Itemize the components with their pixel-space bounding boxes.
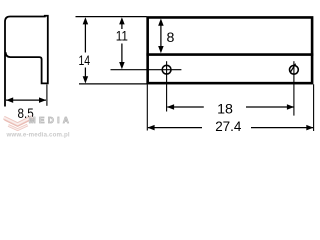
arrow left 8.5 <box>6 97 13 103</box>
svg-text:www.e-media.com.pl: www.e-media.com.pl <box>6 131 70 138</box>
svg-text:8: 8 <box>166 30 174 46</box>
right hole vertical line <box>293 61 295 115</box>
front view divider line <box>146 53 313 56</box>
left hole centerline horizontal <box>111 69 182 71</box>
arrow right 27.4 <box>306 125 313 131</box>
arrow down 11 <box>119 62 125 69</box>
top extension line <box>76 16 147 18</box>
extension line right 27.4 <box>313 84 315 131</box>
extension line left 27.4 <box>146 84 148 130</box>
arrow down 14 <box>83 76 89 83</box>
arrow up 8 <box>158 19 164 26</box>
watermark chevron upper band <box>4 117 32 124</box>
arrow left 18 <box>167 104 174 110</box>
front view rectangle <box>148 17 312 83</box>
side view outline (left profile with hook) <box>5 16 48 107</box>
watermark chevron lower band <box>8 125 27 130</box>
extension line right of 8.5 <box>46 84 48 105</box>
watermark chevron upper edge shadow <box>4 120 31 127</box>
dimension 11 line <box>121 24 123 63</box>
dimension 8.5 line <box>6 99 46 101</box>
watermark chevron upper band core <box>4 117 32 124</box>
bottom extension line <box>79 83 147 85</box>
arrow left 27.4 <box>147 125 154 131</box>
arrow right 8.5 <box>39 97 46 103</box>
arrow down 8 <box>158 46 164 53</box>
arrow up 11 <box>119 17 125 24</box>
dimension 27.4 line <box>148 127 313 129</box>
dimension 14 line <box>84 24 86 77</box>
svg-text:MEDIA: MEDIA <box>29 116 72 125</box>
svg-text:11: 11 <box>116 29 128 45</box>
dimension 8 line <box>160 25 162 47</box>
watermark chevron lower band core <box>8 125 27 130</box>
arrow right 18 <box>287 104 294 110</box>
svg-text:18: 18 <box>217 101 233 117</box>
svg-text:27.4: 27.4 <box>215 119 241 135</box>
right hole <box>290 65 299 74</box>
svg-text:14: 14 <box>79 53 91 69</box>
right hole slash <box>290 64 296 73</box>
left hole centerline vertical <box>166 61 168 111</box>
arrow up 14 <box>83 17 89 24</box>
dimension 18 line <box>167 106 293 108</box>
left hole <box>162 65 171 74</box>
